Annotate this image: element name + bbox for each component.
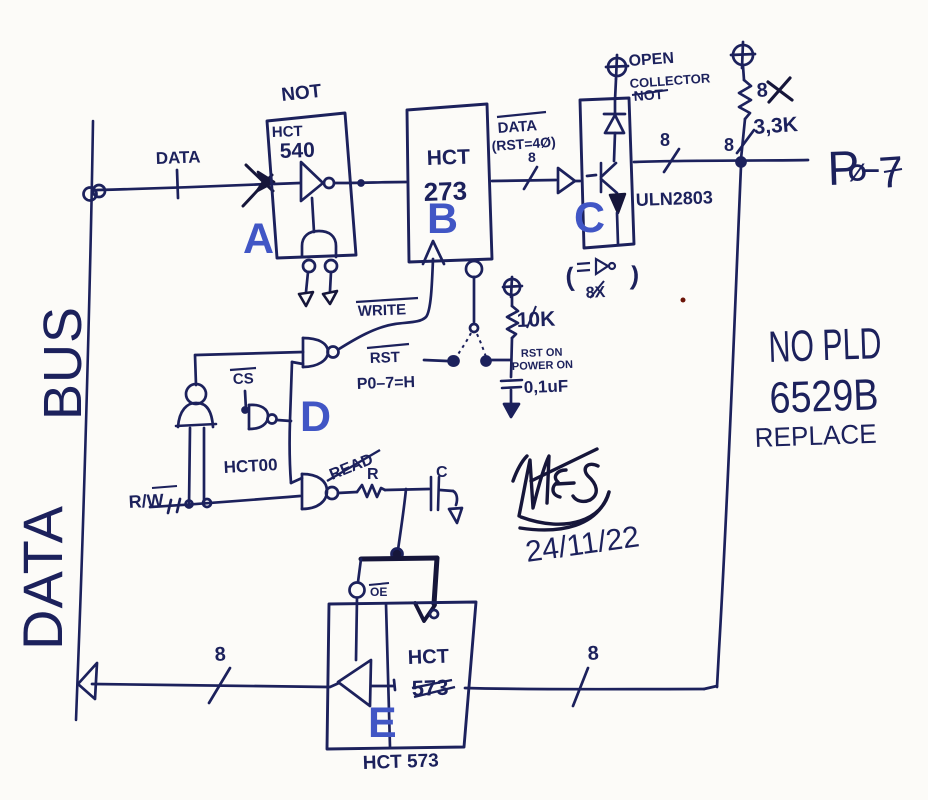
svg-text:CS: CS	[233, 370, 254, 388]
svg-text:RST: RST	[370, 349, 401, 367]
svg-text:10K: 10K	[516, 308, 555, 332]
svg-text:ULN2803: ULN2803	[635, 187, 713, 210]
svg-text:D: D	[300, 393, 331, 441]
svg-text:HCT: HCT	[407, 646, 449, 669]
svg-text:540: 540	[279, 139, 315, 163]
svg-text:6529B: 6529B	[769, 370, 880, 423]
svg-text:3,3K: 3,3K	[753, 113, 799, 139]
svg-text:RST ON: RST ON	[521, 347, 563, 360]
svg-text:8: 8	[587, 642, 599, 665]
svg-text:DATA: DATA	[497, 117, 538, 137]
svg-text:8: 8	[214, 643, 226, 666]
svg-text:0,1uF: 0,1uF	[523, 376, 568, 397]
svg-text:HCT00: HCT00	[223, 455, 278, 477]
svg-text:7: 7	[877, 147, 905, 198]
svg-text:POWER ON: POWER ON	[512, 359, 574, 373]
svg-text:BUS: BUS	[33, 306, 93, 420]
svg-text:OPEN: OPEN	[628, 50, 674, 70]
svg-text:WRITE: WRITE	[358, 301, 407, 320]
svg-text:C: C	[436, 464, 448, 481]
svg-text:OE: OE	[370, 585, 387, 599]
svg-text:R/W: R/W	[128, 490, 164, 512]
svg-text:8: 8	[528, 149, 536, 165]
svg-text:DATA: DATA	[11, 505, 74, 650]
svg-text:C: C	[574, 194, 605, 242]
svg-text:DATA: DATA	[155, 147, 200, 168]
svg-text:R: R	[367, 466, 379, 483]
svg-text:NOT: NOT	[280, 81, 322, 106]
svg-text:REPLACE: REPLACE	[754, 419, 877, 453]
svg-text:HCT: HCT	[426, 145, 470, 169]
svg-text:8: 8	[660, 130, 670, 150]
svg-text:HCT 573: HCT 573	[362, 750, 439, 774]
svg-text:8: 8	[724, 135, 734, 155]
svg-text:8: 8	[756, 79, 768, 102]
svg-text:E: E	[368, 699, 397, 747]
svg-text:8X: 8X	[585, 284, 606, 302]
svg-text:NO PLD: NO PLD	[768, 319, 883, 372]
svg-text:B: B	[427, 195, 458, 243]
svg-text:HCT: HCT	[272, 123, 303, 141]
svg-text:P0–7=H: P0–7=H	[357, 374, 416, 393]
svg-text:A: A	[243, 215, 274, 263]
